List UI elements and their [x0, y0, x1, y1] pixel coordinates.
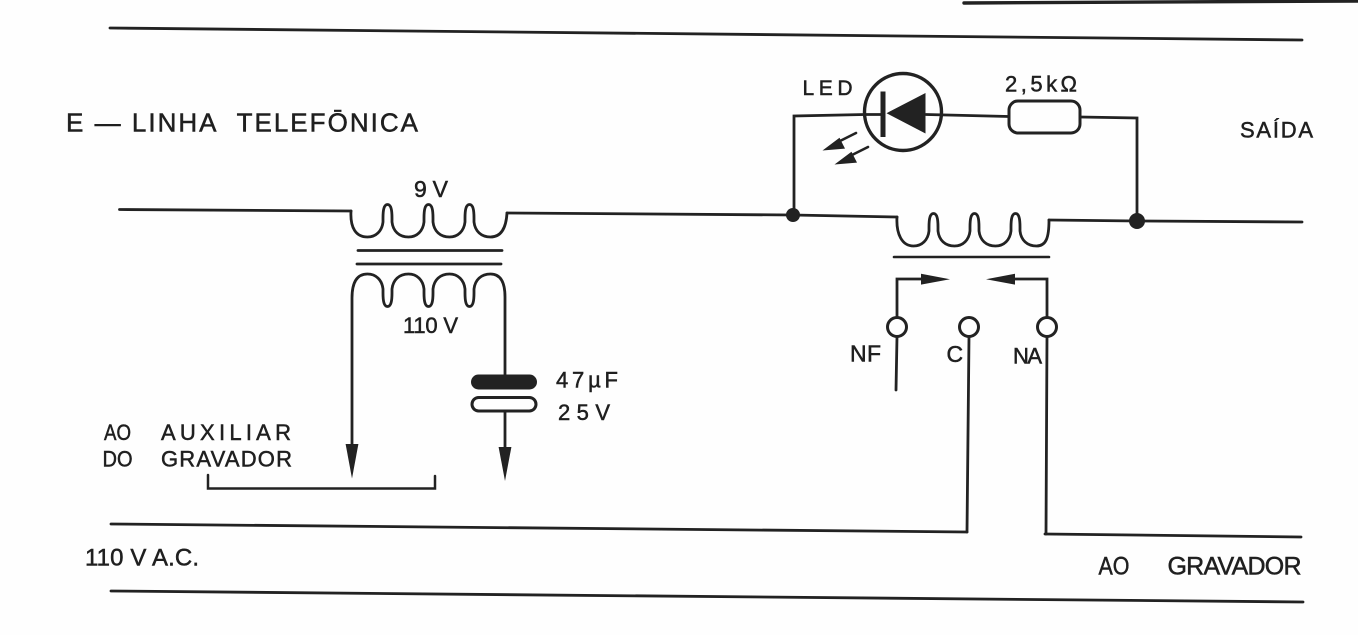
- relay NA contact arm: [1014, 279, 1047, 317]
- arrow head NF arm: [921, 274, 950, 285]
- svg-text:AO: AO: [104, 420, 131, 445]
- wire between T1 and LED node: [507, 213, 793, 215]
- svg-text:2,5kΩ: 2,5kΩ: [1005, 72, 1077, 97]
- capacitor C1 wire to arrow: [504, 411, 507, 449]
- LED D1 circle: [865, 74, 942, 151]
- resistor R1 2.5k body: [1009, 101, 1080, 133]
- contact NF circle: [888, 318, 907, 337]
- light ray arrow 2 head: [835, 152, 858, 165]
- paper edge mark top right: [964, 1, 1358, 3]
- svg-text:NF: NF: [850, 341, 881, 367]
- wire main horizontal left segment: [120, 210, 352, 212]
- svg-text:110 V A.C.: 110 V A.C.: [85, 545, 199, 572]
- svg-text:NA: NA: [1013, 344, 1042, 369]
- bracket under AO AUXILIAR DO GRAVADOR: [208, 475, 435, 489]
- relay K1 core bar: [894, 256, 1049, 259]
- svg-text:DO: DO: [103, 447, 133, 472]
- relay K1 coil: [897, 214, 1049, 247]
- arrow head T1 secondary left: [346, 444, 359, 479]
- contact NA circle: [1038, 318, 1057, 337]
- svg-text:GRAVADOR: GRAVADOR: [161, 447, 292, 472]
- svg-text:110 V: 110 V: [403, 313, 458, 338]
- svg-text:E — LINHA TELEFŌNICA: E — LINHA TELEFŌNICA: [66, 108, 419, 138]
- light ray arrow 2 shaft: [850, 147, 868, 156]
- arrow head NA arm: [986, 274, 1015, 285]
- svg-text:SAÍDA: SAÍDA: [1240, 118, 1313, 143]
- capacitor C1 top plate (filled): [471, 375, 537, 390]
- capacitor C1 bottom plate (outline): [472, 398, 536, 412]
- wire right node to saida: [1137, 221, 1302, 222]
- wire LED branch vertical: [794, 115, 865, 216]
- light ray arrow 1 head: [823, 138, 846, 151]
- transformer T1 secondary winding 110V with lead wires: [352, 274, 505, 446]
- node A junction dot left: [786, 208, 800, 222]
- transformer T1 primary winding 9V: [351, 205, 507, 238]
- svg-text:LED: LED: [803, 77, 853, 100]
- wire top bus (telephone line upper): [110, 28, 1302, 40]
- svg-text:AO: AO: [1099, 553, 1130, 581]
- LED D1 cathode bar: [881, 92, 886, 138]
- wire through LED: [865, 115, 1009, 117]
- transformer T1 core: [358, 249, 502, 252]
- wire bottom bus1 left (110VAC): [111, 524, 967, 532]
- wire node A to relay coil: [793, 215, 897, 217]
- svg-text:25V: 25V: [558, 400, 610, 425]
- wire resistor to right node: [1080, 117, 1137, 221]
- svg-text:47µF: 47µF: [556, 368, 618, 393]
- wire NF stub: [896, 337, 897, 390]
- LED D1 triangle: [887, 93, 926, 134]
- svg-text:AUXILIAR: AUXILIAR: [161, 420, 291, 445]
- wire C to bottom bus: [967, 337, 969, 532]
- light ray arrow 1 shaft: [838, 133, 856, 142]
- svg-text:GRAVADOR: GRAVADOR: [1168, 553, 1302, 581]
- arrow head capacitor lead: [499, 447, 512, 481]
- svg-text:C: C: [947, 341, 964, 367]
- wire bottom bus2: [111, 591, 1303, 602]
- contact C circle: [960, 318, 979, 337]
- wire relay coil to right node: [1049, 220, 1137, 221]
- wire NA to bottom bus: [1046, 337, 1047, 534]
- relay NF contact arm: [897, 279, 922, 317]
- wire bottom bus1 right: [1045, 534, 1301, 537]
- svg-text:9 V: 9 V: [414, 176, 449, 202]
- node B junction dot right: [1129, 213, 1145, 229]
